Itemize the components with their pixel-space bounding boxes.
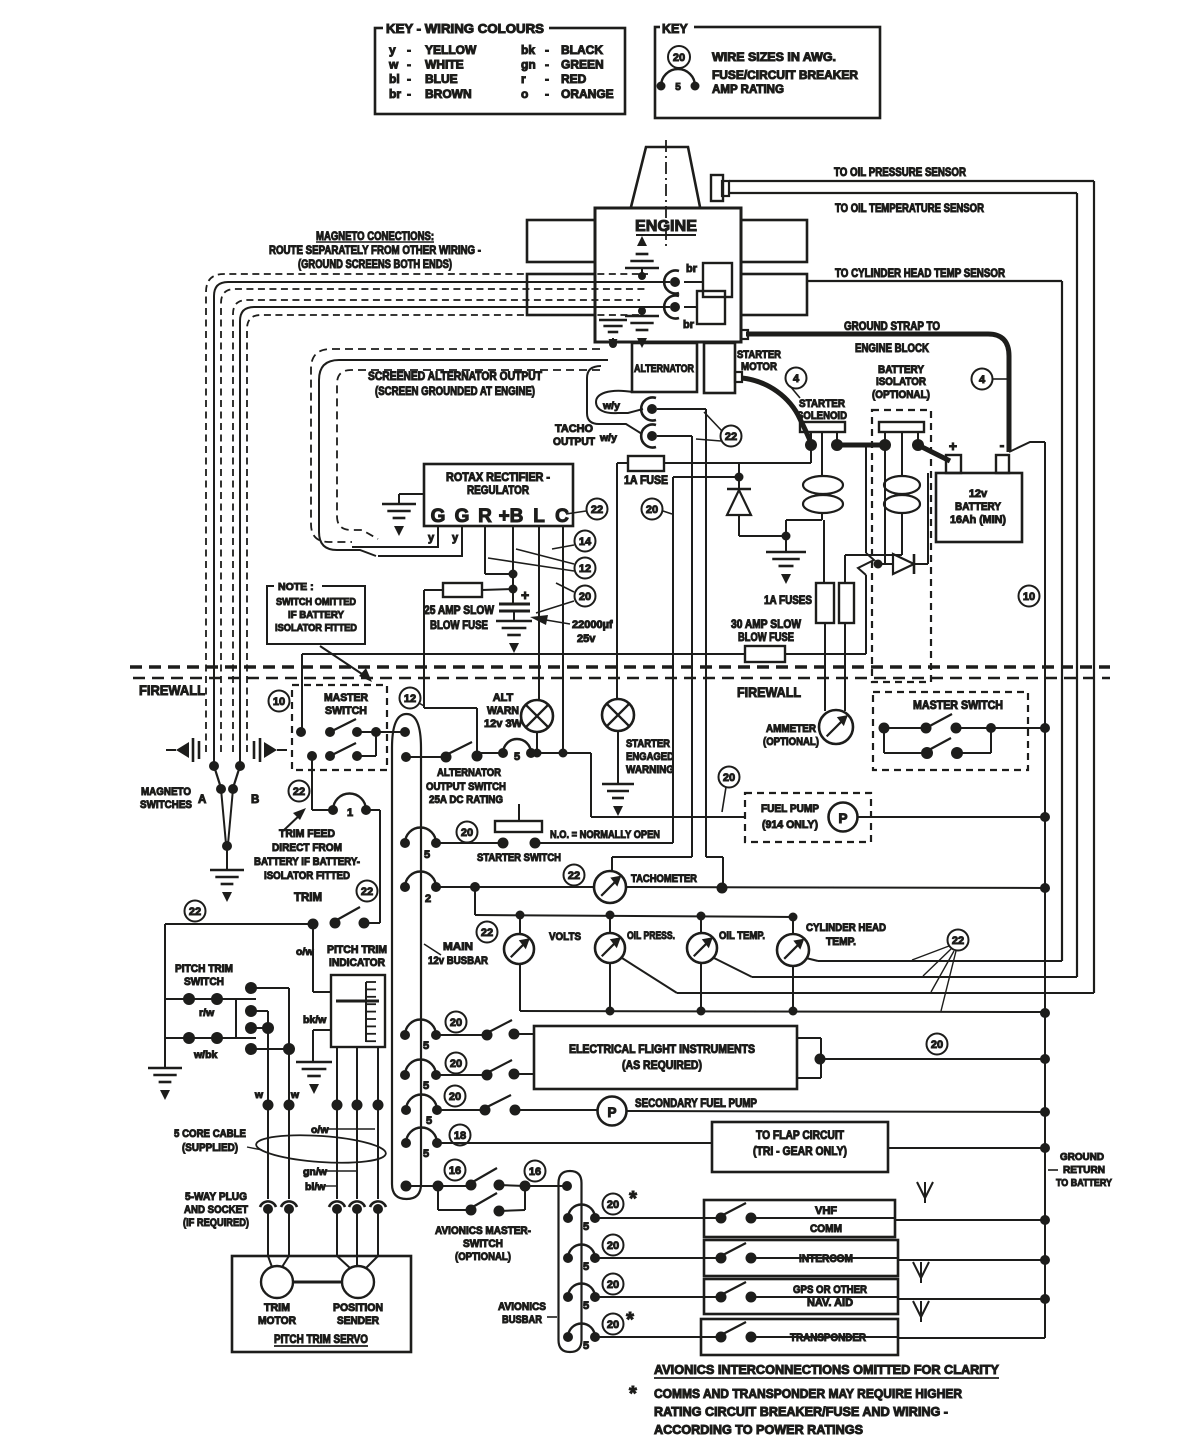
svg-text:br: br [389,87,401,101]
svg-text:VOLTS: VOLTS [549,931,581,943]
motor sender link [293,1281,342,1284]
note box switch omitted [267,580,365,644]
svg-text:bl: bl [389,72,400,86]
vhf wire to bus [895,1215,1050,1225]
svg-text:MAGNETO: MAGNETO [141,786,191,798]
plug pins [260,1201,386,1214]
cht meter bottom wire [789,966,798,1016]
firewall dashed line lower [133,677,1110,680]
svg-text:TRANSPONDER: TRANSPONDER [790,1332,866,1344]
oil temp meter bottom wire [697,963,706,1016]
wire w-y lower vertical [612,436,692,871]
label pitch trim servo [274,1334,368,1346]
svg-text:(OPTIONAL): (OPTIONAL) [455,1251,511,1263]
rotax rectifier regulator box [424,464,573,526]
alternator label [634,363,694,375]
label starter switch [477,852,561,864]
pitch trim switch feed [164,924,166,999]
busbar to instrument rail [474,887,476,915]
svg-text:L: L [533,506,545,527]
battery isolator coil wires [845,513,902,583]
svg-text:GROUND STRAP TO: GROUND STRAP TO [844,321,940,333]
position sender circle [337,1256,378,1298]
svg-text:MAIN: MAIN [443,941,473,953]
svg-text:16Ah (MIN): 16Ah (MIN) [950,514,1006,526]
svg-text:w: w [388,58,399,72]
label electrical flight instruments [569,1044,755,1072]
magneto switch A [209,761,226,844]
battery isolator label [872,364,930,401]
carburettor trapezoid on engine top [631,147,700,207]
svg-text:A: A [198,794,206,806]
svg-text:20: 20 [646,504,658,516]
tacho connector lower [641,424,692,447]
1a fuse middle [628,456,664,471]
fuse 5 efi row [400,1020,441,1053]
isolator diode [893,473,928,574]
oil press sensor link [622,958,1094,993]
svg-text:*: * [626,1309,634,1331]
label pitch trim switch [175,963,233,988]
awg circle 10 master switch [269,691,290,712]
starter engaged warning lamp [602,699,634,731]
label secondary fuel pump [635,1098,757,1110]
svg-text:5-WAY PLUG: 5-WAY PLUG [185,1191,247,1203]
trim indicator ground [296,1062,332,1094]
svg-text:-: - [407,72,411,86]
svg-text:(SUPPLIED): (SUPPLIED) [182,1142,238,1154]
transponder box [701,1319,898,1355]
svg-text:25A DC RATING: 25A DC RATING [429,794,503,806]
awg circle 22 trim [289,781,310,802]
awg circle 22 tachometer [564,865,585,886]
hairpin node lower [401,752,411,762]
awg circle 4 ground strap [972,369,1009,390]
label 25 amp slow blow fuse [424,605,494,632]
secondary fuel pump P circle [598,1097,627,1126]
master switch pole 1 [296,719,406,737]
fuse 5 secondary fuel pump [401,1095,442,1128]
svg-text:r: r [521,72,526,86]
switch secondary fuel pump [437,1095,597,1116]
pitch trim indicator label [327,944,387,969]
label capacitor value [530,615,613,645]
svg-text:22: 22 [189,906,201,918]
diode starter solenoid [727,477,786,536]
magneto cable B screen outer dashed [233,300,640,752]
thick link isolator-battery [918,445,950,461]
label cylinder head temp [806,922,886,948]
fuel pump dashed box [745,793,871,842]
awg circle 20 fuel pump [719,767,740,813]
gps box [704,1279,898,1314]
wire w-y upper vertical [706,409,723,888]
awg circle 22 regulator [566,499,608,520]
svg-text:TO OIL PRESSURE SENSOR: TO OIL PRESSURE SENSOR [834,167,967,179]
starter solenoid coil [803,476,843,513]
battery 12v box [936,473,1022,542]
trim feed vertical [379,810,381,923]
svg-text:MASTER: MASTER [324,692,368,704]
svg-text:20: 20 [607,1199,619,1211]
svg-text:(AS REQUIRED): (AS REQUIRED) [622,1060,702,1072]
cht sensor link [806,958,1062,961]
svg-text:w: w [254,1089,264,1101]
fuse 5 transponder [563,1324,721,1353]
oil temp sensor link [714,958,1077,977]
label alternator output switch [426,767,506,806]
25 amp fuse [424,583,513,597]
awg circle 20 transponder [603,1309,635,1335]
legend wire size symbol [668,46,836,68]
carb sensor nub [711,175,729,201]
svg-text:AVIONICS: AVIONICS [498,1301,546,1313]
starter solenoid coil wires [786,513,824,583]
svg-text:(SCREEN GROUNDED AT ENGINE): (SCREEN GROUNDED AT ENGINE) [375,386,535,398]
svg-text:(914 ONLY): (914 ONLY) [762,819,818,831]
svg-text:TRIM: TRIM [294,892,322,904]
avionics feed node [401,1181,412,1192]
master switch right pole 2 [884,728,991,759]
volts meter [504,915,534,964]
pitch trim switch pole 2 [165,999,256,1044]
cht meter [777,917,809,966]
svg-text:r/w: r/w [199,1007,215,1019]
master switch left label [324,692,368,717]
svg-text:(GROUND SCREENS BOTH ENDS): (GROUND SCREENS BOTH ENDS) [298,259,452,271]
isolator diode wire [874,445,894,569]
label volts [549,931,581,943]
svg-text:SOLENOID: SOLENOID [797,410,847,422]
svg-text:22000µf: 22000µf [572,619,613,631]
wire R to node [485,527,513,574]
label w/bk [193,1049,217,1061]
label 1a fuse [624,475,668,487]
cable grommet left [166,738,199,762]
thick link solenoid-isolator [837,443,885,448]
trim motor circle [261,1256,293,1298]
oil press meter bottom wire [606,963,615,1016]
label oil press [627,930,675,942]
svg-text:ALTERNATOR: ALTERNATOR [634,363,694,375]
svg-text:AND SOCKET: AND SOCKET [184,1204,248,1216]
magneto cable B core wire [240,307,670,762]
efi output bracket [797,1038,826,1078]
svg-text:GPS OR OTHER: GPS OR OTHER [793,1284,867,1296]
svg-text:20: 20 [607,1240,619,1252]
trim switch wire [165,907,380,930]
svg-text:KEY: KEY [662,22,688,36]
zigzag link wire [858,445,874,654]
svg-text:YELLOW: YELLOW [425,43,477,57]
magneto pickup upper [664,271,703,294]
svg-text:TRIM FEED: TRIM FEED [279,828,335,840]
magneto pickup lower [664,296,697,319]
tacho output wire 2 [587,366,642,434]
starter engaged warning ground [602,731,634,816]
label oil temp [719,930,765,942]
svg-text:12: 12 [404,693,416,705]
awg circle 20 secondary fuel pump [445,1086,466,1107]
svg-text:ENGAGED: ENGAGED [626,751,674,763]
svg-text:BLOW FUSE: BLOW FUSE [430,620,488,632]
label to flap circuit [753,1130,847,1158]
wire starter warn vertical [616,463,618,699]
svg-text:ROUTE SEPARATELY FROM OTHER WI: ROUTE SEPARATELY FROM OTHER WIRING - [269,245,481,257]
master switch left dashed box [292,685,387,770]
awg circle 10 ground bus [1019,586,1040,607]
wire to oil pressure sensor [729,181,1094,993]
svg-text:5: 5 [675,82,681,93]
transponder wire to bus [898,1337,1045,1339]
svg-text:RATING CIRCUIT BREAKER/FUSE AN: RATING CIRCUIT BREAKER/FUSE AND WIRING - [654,1405,948,1419]
tacho connector upper [641,398,706,421]
svg-text:+B: +B [499,506,524,527]
ammeter [819,710,853,744]
svg-text:TO OIL TEMPERATURE SENSOR: TO OIL TEMPERATURE SENSOR [835,203,985,215]
note arrow [320,646,372,682]
wire 1a fuse line [617,447,811,463]
svg-text:o: o [521,87,528,101]
cable grommet right [254,738,287,762]
svg-text:SENDER: SENDER [337,1315,379,1327]
label ammeter [763,723,819,748]
ground return bus [1009,442,1045,1338]
label tacho output [553,423,595,448]
svg-text:(OPTIONAL): (OPTIONAL) [763,736,819,748]
label r/w [199,1007,215,1019]
svg-text:o/w: o/w [296,946,314,958]
1a fuses vertical pair [816,583,854,711]
wire starter switch vertical [672,477,674,843]
svg-text:(IF REQUIRED): (IF REQUIRED) [183,1217,249,1229]
svg-text:ELECTRICAL FLIGHT INSTRUMENTS: ELECTRICAL FLIGHT INSTRUMENTS [569,1044,755,1056]
svg-text:-: - [407,87,411,101]
label avionics interconnections omitted [654,1363,1000,1378]
label gps [793,1284,867,1309]
svg-text:1A FUSE: 1A FUSE [624,475,668,487]
awg circle 20 vhf [603,1188,638,1215]
svg-text:SECONDARY FUEL PUMP: SECONDARY FUEL PUMP [635,1098,757,1110]
label transponder [790,1332,866,1344]
svg-text:20: 20 [673,52,685,64]
svg-text:5 CORE CABLE: 5 CORE CABLE [174,1128,246,1140]
svg-text:5: 5 [514,751,520,763]
svg-text:20: 20 [449,1091,461,1103]
svg-text:TACHOMETER: TACHOMETER [631,873,697,885]
svg-text:STARTER SWITCH: STARTER SWITCH [477,852,561,864]
svg-text:4: 4 [979,374,986,386]
battery terminals [946,437,1009,473]
svg-text:G: G [455,506,470,527]
engine centreline dash-dot [665,140,667,250]
svg-text:*: * [629,1383,637,1405]
fuse 5 alt circuit [477,739,568,763]
awg circle 20 starter switch [457,822,478,843]
footnote text [654,1387,962,1437]
svg-text:5: 5 [583,1340,589,1352]
master switch right label [913,700,1003,712]
svg-text:20: 20 [461,827,473,839]
master switch pole 2 [307,733,376,761]
switch efi row 2 [436,1060,534,1081]
svg-text:14: 14 [579,536,592,548]
svg-text:BROWN: BROWN [425,87,472,101]
svg-text:ALT: ALT [493,692,514,704]
svg-text:INTERCOM: INTERCOM [799,1253,853,1265]
awg circle 12 busbar feed [400,688,425,709]
svg-text:-: - [545,72,549,86]
svg-text:22: 22 [591,504,603,516]
svg-text:*: * [629,1188,637,1210]
svg-text:SWITCH OMITTED: SWITCH OMITTED [276,596,356,608]
label avionics busbar [498,1301,557,1326]
svg-text:5: 5 [423,1148,429,1160]
gps wire to bus [898,1294,1050,1304]
svg-text:COMM: COMM [810,1223,842,1235]
svg-text:OUTPUT SWITCH: OUTPUT SWITCH [426,781,506,793]
svg-text:TO CYLINDER HEAD TEMP SENSOR: TO CYLINDER HEAD TEMP SENSOR [835,268,1006,280]
engine internal ground lower [625,307,659,348]
svg-text:BATTERY: BATTERY [955,501,1002,513]
svg-text:MASTER SWITCH: MASTER SWITCH [913,700,1003,712]
battery label [950,488,1006,526]
svg-text:16: 16 [449,1165,461,1177]
svg-text:PITCH TRIM SERVO: PITCH TRIM SERVO [274,1334,368,1346]
to flap circuit box [712,1122,888,1172]
svg-text:SCREENED ALTERNATOR OUTPUT: SCREENED ALTERNATOR OUTPUT [368,371,542,383]
magneto switch B [228,761,245,844]
instrument top rail [475,911,798,922]
awg circle 20 regulator [536,583,596,613]
fuse 5 efi row 2 [400,1060,441,1093]
awg circle 20 near 1a fuse [642,499,673,520]
svg-text:22: 22 [568,870,580,882]
svg-text:SWITCH: SWITCH [325,705,367,717]
svg-text:NOTE :: NOTE : [278,581,314,593]
tacho output wire 1 [596,391,643,413]
awg circle 22 volts [477,922,498,943]
label fuel pump [761,803,819,831]
label bl/w cable [305,1181,337,1193]
svg-text:GROUND: GROUND [1060,1151,1104,1163]
magneto cable A core wire [214,282,670,762]
battery isolator coil [884,476,920,513]
intercom switch [716,1243,899,1264]
svg-text:R: R [478,506,492,527]
regulator terminals G G R +B L C [431,506,570,527]
awg circle 22 trim switch wire [357,881,378,902]
magneto switches junction [222,841,232,851]
svg-text:5: 5 [423,1080,429,1092]
awg circle 20 efi output [927,1034,948,1055]
label ground return to battery [1048,1151,1112,1189]
label magneto A [198,794,206,806]
svg-text:5: 5 [426,1115,432,1127]
svg-text:25v: 25v [577,633,596,645]
five core cable label [174,1128,262,1154]
capacitor ground [496,621,532,653]
svg-text:-: - [407,58,411,72]
starter cable wire [742,378,811,443]
svg-text:20: 20 [607,1319,619,1331]
trim indicator feed o/w [313,924,331,992]
volts meter bottom wire [519,964,521,1011]
label to oil temperature sensor [835,203,985,215]
svg-text:C: C [555,506,569,527]
awg circle 20 intercom [603,1235,624,1256]
pitch trim switch terminals [245,982,295,1105]
regulator case ground [382,504,416,536]
wire +B down [509,527,518,604]
alternator box [632,343,697,392]
transponder antenna [913,1301,929,1322]
svg-text:gn/w: gn/w [303,1166,328,1178]
svg-text:BLACK: BLACK [561,43,603,57]
wire to oil temperature sensor [729,193,1077,977]
starter motor label [737,349,781,373]
intercom wire to bus [898,1255,1050,1265]
pitch trim indicator scale [336,982,379,1042]
svg-text:25 AMP SLOW: 25 AMP SLOW [424,605,494,617]
awg circle 20 efi row 2 [446,1053,467,1074]
svg-text:OUTPUT: OUTPUT [553,436,595,448]
svg-text:G: G [431,506,446,527]
oil temp meter [687,916,717,963]
svg-text:20: 20 [450,1058,462,1070]
svg-text:P: P [838,811,847,826]
trim feed arrow [283,808,306,831]
wire to fuel pump [563,753,745,817]
awg circle 22 pitch trim [185,901,206,922]
trim indicator output wires [337,1047,378,1105]
efi output wire [821,1054,1050,1064]
label n o normally open [550,829,660,841]
svg-text:-: - [545,43,549,57]
label 30 amp slow blow fuse [731,619,801,644]
plug wires to servo [268,1209,378,1256]
fuse 5 gps [563,1284,721,1313]
svg-text:10: 10 [1023,591,1035,603]
firewall dashed line upper [130,665,1110,668]
svg-text:20: 20 [607,1279,619,1291]
svg-text:FUEL PUMP: FUEL PUMP [761,803,819,815]
label o/w [296,946,314,958]
alternator screen solid [319,360,608,556]
starter switch button [495,804,542,832]
label magneto B [251,794,259,806]
label y wire 2 [452,532,459,544]
starter motor nub [735,372,742,382]
flap circuit wire [437,1142,712,1144]
svg-text:(TRI - GEAR ONLY): (TRI - GEAR ONLY) [753,1146,847,1158]
footnote star [629,1383,637,1405]
wire to cylinder head temp sensor [807,281,1062,961]
pitch trim indicator box [331,975,385,1047]
svg-text:PITCH TRIM: PITCH TRIM [327,944,387,956]
svg-text:-: - [1000,437,1005,453]
pitch trim switch link [235,999,237,1038]
alternator screen inner dashed [337,370,600,539]
tachometer wire [475,883,1050,894]
fuse 2 tachometer [400,871,480,905]
label bk/w [303,1014,327,1026]
label intercom [799,1253,853,1265]
svg-text:WIRE SIZES IN AWG.: WIRE SIZES IN AWG. [712,52,836,64]
avionics busbar feed node [562,1181,572,1191]
tachometer [594,871,626,903]
svg-text:ENGINE BLOCK: ENGINE BLOCK [855,343,930,355]
